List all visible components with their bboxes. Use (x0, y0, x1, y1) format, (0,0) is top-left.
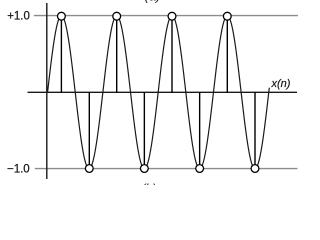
svg-text:(a): (a) (145, 0, 161, 4)
svg-text:−1.0: −1.0 (7, 164, 30, 176)
svg-text:(b): (b) (142, 182, 157, 186)
svg-text:+1.0: +1.0 (7, 10, 30, 22)
svg-text:x(n): x(n) (271, 78, 291, 90)
